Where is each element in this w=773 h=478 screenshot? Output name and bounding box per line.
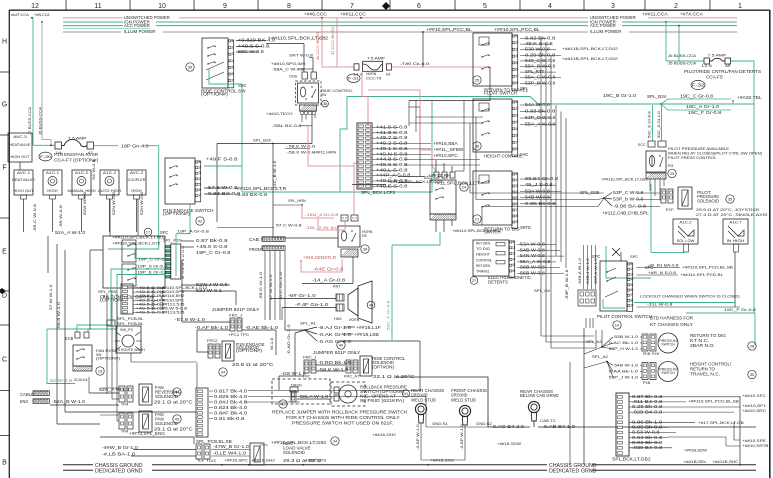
svg-text:8: 8 (287, 3, 291, 10)
svg-text:SPL_RTT: SPL_RTT (525, 69, 545, 74)
svg-text:27.4 Ω AT 20°C, SINGLE AXIS: 27.4 Ω AT 20°C, SINGLE AXIS (696, 212, 768, 217)
svg-text:3: 3 (611, 3, 615, 10)
svg-text:49.K S-0.8: 49.K S-0.8 (525, 41, 554, 46)
svg-text:+##110,SPL,BCK,LT,R: +##110,SPL,BCK,LT,R (234, 186, 286, 191)
svg-text:+49.F S-0.8: +49.F S-0.8 (206, 157, 238, 162)
svg-text:YFM: YFM (121, 430, 128, 434)
svg-text:B: B (2, 460, 7, 467)
svg-text:-9.08 BA-0.8: -9.08 BA-0.8 (613, 204, 647, 209)
svg-text:19P_C Or-0.8: 19P_C Or-0.8 (138, 257, 169, 261)
svg-text:F: F (2, 165, 6, 172)
svg-text:8: 8 (631, 298, 633, 302)
svg-text:1: 1 (631, 262, 633, 266)
svg-text:MANUAL HIGH: MANUAL HIGH (68, 189, 96, 193)
svg-text:45: 45 (369, 303, 374, 308)
svg-text:38: 38 (363, 247, 368, 252)
svg-text:54B W-1.0: 54B W-1.0 (614, 363, 639, 368)
svg-text:+#112,C4B,CHB,SPL: +#112,C4B,CHB,SPL (602, 211, 650, 216)
svg-text:+49.7 S-0.8: +49.7 S-0.8 (376, 135, 408, 140)
svg-text:J7 BUSS-CCA: J7 BUSS-CCA (28, 106, 32, 135)
svg-text:HN2: HN2 (334, 317, 342, 321)
svg-text:12: 12 (31, 3, 39, 10)
svg-text:0.82 Bk-0.8: 0.82 Bk-0.8 (525, 36, 556, 41)
svg-text:7: 7 (516, 140, 518, 144)
svg-text:-#,LB BA-1.0: -#,LB BA-1.0 (102, 452, 136, 457)
svg-text:0.87 Bk-0.8: 0.87 Bk-0.8 (196, 238, 228, 243)
svg-text:SPL_BCK.LCF2: SPL_BCK.LCF2 (361, 190, 396, 195)
svg-text:+49.2 S-0.8: +49.2 S-0.8 (376, 141, 408, 146)
svg-text:SPL_G#: SPL_G# (534, 288, 551, 293)
svg-text:1: 1 (516, 172, 518, 176)
svg-text:-0.AP W-1.0: -0.AP W-1.0 (416, 424, 420, 450)
svg-text:54B W-0.8: 54B W-0.8 (520, 247, 546, 252)
svg-text:22.1 Ω at 20°C: 22.1 Ω at 20°C (373, 374, 416, 379)
svg-text:SOLENOID: SOLENOID (155, 421, 178, 426)
svg-text:IN HIGH: IN HIGH (727, 239, 745, 243)
svg-text:SPL,BCK,LT,GB2: SPL,BCK,LT,GB2 (612, 457, 651, 462)
svg-text:26: 26 (475, 144, 480, 149)
svg-text:SPC: SPC (592, 254, 600, 259)
svg-text:53P_H W-1.0: 53P_H W-1.0 (609, 346, 639, 351)
svg-text:52 W-0.8: 52 W-0.8 (50, 378, 73, 383)
svg-text:+##10,SFC: +##10,SFC (433, 153, 458, 158)
svg-text:+##16,SBA: +##16,SBA (433, 141, 458, 146)
svg-text:SPL_A2: SPL_A2 (586, 339, 603, 344)
svg-text:9: 9 (631, 304, 633, 308)
svg-text:19C_A Gr-1.0: 19C_A Gr-1.0 (686, 104, 720, 109)
svg-text:AVC.1: AVC.1 (17, 170, 31, 175)
svg-text:0.824 Bk-4.0: 0.824 Bk-4.0 (214, 405, 248, 410)
svg-text:FRC_J: FRC_J (229, 313, 242, 318)
svg-text:G: G (2, 102, 7, 109)
svg-text:-57.9 W-1.0: -57.9 W-1.0 (175, 317, 206, 322)
svg-text:HORN: HORN (349, 318, 359, 322)
svg-text:SWITCH: SWITCH (661, 371, 675, 375)
svg-text:52A_A W-1.0: 52A_A W-1.0 (55, 230, 86, 235)
svg-text:PXB: PXB (643, 381, 651, 385)
svg-text:57.C W-0.8: 57.C W-0.8 (276, 224, 301, 228)
svg-text:-19U_4 Gr-0.8: -19U_4 Gr-0.8 (305, 213, 338, 217)
svg-text:-6# Gr-1.0: -6# Gr-1.0 (288, 293, 317, 298)
svg-text:6: 6 (516, 202, 518, 206)
svg-text:34: 34 (333, 439, 338, 444)
svg-text:SWITCH: SWITCH (661, 343, 675, 347)
svg-text:LOCKOUT CHANGED WHEN SWITCH IS: LOCKOUT CHANGED WHEN SWITCH IS CLOSED. (640, 294, 741, 299)
svg-text:-0,LE W4-1.0: -0,LE W4-1.0 (213, 451, 247, 456)
svg-text:+41.8 S-0.8: +41.8 S-0.8 (376, 130, 408, 135)
svg-text:7: 7 (350, 3, 354, 10)
svg-text:0.8#F Bk-4.0: 0.8#F Bk-4.0 (214, 411, 248, 416)
svg-text:RETURN: RETURN (476, 264, 490, 268)
svg-text:COUPLER: COUPLER (128, 178, 146, 182)
svg-text:+##10,SRTB: +##10,SRTB (742, 443, 769, 448)
svg-text:CAB.TC: CAB.TC (540, 418, 556, 423)
svg-text:0.829 Bk-4.0: 0.829 Bk-4.0 (214, 394, 248, 399)
svg-text:-59.G W-1.0: -59.G W-1.0 (259, 272, 263, 300)
svg-text:SRTD: SRTD (520, 225, 531, 230)
svg-text:E: E (2, 249, 7, 256)
svg-text:19: 19 (615, 323, 620, 328)
svg-text:34: 34 (221, 370, 226, 375)
svg-text:+##110,SPL,BCK,LG72: +##110,SPL,BCK,LG72 (112, 242, 160, 246)
svg-text:ENG: ENG (20, 399, 28, 404)
svg-text:4: 4 (199, 177, 201, 181)
svg-text:RE: RE (362, 234, 368, 238)
svg-text:1: 1 (513, 240, 515, 244)
svg-text:+PC1 TPC: +PC1 TPC (228, 332, 249, 337)
svg-text:19C_B Gr-1.0: 19C_B Gr-1.0 (603, 93, 637, 98)
svg-text:+##110,SPL,BCK,LT,N02: +##110,SPL,BCK,LT,N02 (112, 236, 165, 240)
svg-text:ILLUM POWER: ILLUM POWER (124, 29, 156, 34)
svg-text:AVC.2: AVC.2 (130, 170, 144, 175)
svg-text:9: 9 (516, 220, 518, 224)
svg-text:4: 4 (232, 59, 234, 63)
svg-text:53C_F Gr-0.8: 53C_F Gr-0.8 (387, 301, 391, 330)
svg-text:SPL_FAN: SPL_FAN (98, 289, 117, 294)
svg-text:53P_b W-0.8: 53P_b W-0.8 (613, 197, 644, 202)
svg-text:1: 1 (738, 3, 742, 10)
svg-text:40: 40 (339, 343, 344, 348)
svg-text:6: 6 (631, 288, 633, 292)
svg-text:53B W-1.0: 53B W-1.0 (614, 334, 639, 339)
svg-text:SPL_A2: SPL_A2 (592, 354, 609, 359)
svg-text:2: 2 (199, 166, 201, 170)
svg-text:4: 4 (516, 190, 518, 194)
svg-text:20.8 Ω at 20°C: 20.8 Ω at 20°C (232, 362, 275, 367)
svg-text:54A W-0.8: 54A W-0.8 (525, 102, 551, 107)
svg-text:90 PSIG (621KPA): 90 PSIG (621KPA) (360, 398, 405, 403)
svg-text:AVC.3: AVC.3 (13, 134, 27, 139)
svg-text:-SBL BX-0.8: -SBL BX-0.8 (272, 123, 302, 128)
svg-text:F-32: F-32 (692, 83, 705, 89)
svg-text:41: 41 (404, 391, 409, 396)
svg-text:5: 5 (483, 3, 487, 10)
svg-text:53P_C W-0.8: 53P_C W-0.8 (613, 190, 644, 195)
svg-text:SPL_PCB,BL: SPL_PCB,BL (117, 316, 144, 321)
svg-text:J7-CCC BUSS: J7-CCC BUSS (331, 27, 335, 55)
svg-text:WELD STUD: WELD STUD (411, 397, 436, 402)
svg-text:7: 7 (516, 74, 518, 78)
svg-text:+49.1 S-0.8: +49.1 S-0.8 (376, 146, 408, 151)
svg-text:D: D (2, 293, 7, 300)
svg-text:ACC POWER: ACC POWER (124, 23, 150, 28)
svg-text:6: 6 (513, 269, 515, 273)
svg-text:43: 43 (175, 417, 180, 422)
svg-text:DETENTS: DETENTS (488, 280, 508, 285)
svg-text:+##T3,SPL_ENG: +##T3,SPL_ENG (129, 431, 165, 436)
svg-text:W-1.0: W-1.0 (270, 338, 274, 350)
svg-text:+41.5 S-0.8: +41.5 S-0.8 (376, 125, 408, 130)
svg-text:+49.N S-0.8: +49.N S-0.8 (376, 151, 408, 156)
svg-text:5: 5 (516, 61, 518, 65)
svg-text:6: 6 (417, 3, 421, 10)
svg-text:53C_E Gr-0.8: 53C_E Gr-0.8 (648, 111, 652, 138)
svg-text:+##16,L0B: +##16,L0B (354, 332, 379, 337)
svg-text:FRC_A7: FRC_A7 (344, 375, 359, 379)
svg-text:7.5 AMP: 7.5 AMP (68, 136, 87, 141)
svg-text:-0.AF Bk-1.0: -0.AF Bk-1.0 (195, 325, 229, 330)
svg-text:19P_E Or-0.8: 19P_E Or-0.8 (137, 270, 168, 274)
svg-text:2: 2 (674, 3, 678, 10)
svg-text:57.W W-1.0: 57.W W-1.0 (269, 275, 273, 300)
svg-text:53P_B W-0.8: 53P_B W-0.8 (525, 80, 556, 85)
svg-text:52N W-0.6: 52N W-0.6 (112, 192, 116, 215)
svg-text:9: 9 (223, 3, 227, 10)
svg-text:7.5 AMP: 7.5 AMP (708, 53, 727, 58)
svg-text:SPC: SPC (630, 254, 638, 259)
svg-text:A1C.2: A1C.2 (679, 221, 691, 225)
svg-text:BELOW CAB GRND: BELOW CAB GRND (520, 393, 559, 398)
svg-text:-T#0 Ck-6.0: -T#0 Ck-6.0 (400, 61, 430, 66)
svg-text:HEIGHT CONTROL: HEIGHT CONTROL (484, 154, 523, 159)
svg-text:17: 17 (146, 230, 151, 235)
svg-text:+##110,SPL,BCK,LT,G02: +##110,SPL,BCK,LT,G02 (452, 229, 501, 233)
svg-text:.039 B4-0.8: .039 B4-0.8 (632, 445, 663, 450)
svg-text:A1C.1: A1C.1 (46, 170, 60, 175)
svg-text:+#16,SPS: +#16,SPS (305, 458, 327, 463)
svg-text:+##11,CCC: +##11,CCC (340, 12, 366, 17)
svg-text:DEDICATED GRND: DEDICATED GRND (549, 469, 597, 475)
svg-text:DEDICATED GRND: DEDICATED GRND (95, 469, 143, 475)
svg-text:19C_F Gr-0.8: 19C_F Gr-0.8 (688, 110, 722, 115)
svg-text:36: 36 (188, 65, 193, 70)
svg-text:+##16,GH2: +##16,GH2 (372, 432, 397, 437)
svg-text:3: 3 (232, 52, 234, 56)
svg-text:C: C (2, 357, 7, 364)
svg-text:36: 36 (323, 101, 328, 106)
svg-text:+##110,SPL,PCD,BL: +##110,SPL,PCD,BL (680, 273, 723, 277)
svg-text:25: 25 (475, 78, 480, 83)
svg-text:-0.AG Gr-2.0: -0.AG Gr-2.0 (318, 339, 352, 344)
svg-text:+##10,SPL,PCC,BL: +##10,SPL,PCC,BL (426, 27, 473, 32)
svg-text:+##110,SPL,BCK,LT,G02: +##110,SPL,BCK,LT,G02 (601, 178, 648, 182)
svg-text:A1C.7: A1C.7 (729, 221, 741, 225)
svg-text:30: 30 (750, 372, 755, 377)
svg-text:A1C.2: A1C.2 (75, 170, 89, 175)
svg-text:SPL_A1: SPL_A1 (300, 321, 317, 326)
svg-text:3: 3 (199, 171, 201, 175)
svg-text:+49.E S-0.8: +49.E S-0.8 (376, 183, 408, 188)
svg-text:-9.AJ Gr-1.0: -9.AJ Gr-1.0 (318, 325, 352, 330)
svg-text:SFC: SFC (160, 230, 168, 235)
svg-text:55A_A W-0.8: 55A_A W-0.8 (525, 122, 556, 127)
svg-text:FRONT: FRONT (249, 247, 264, 252)
svg-text:CCA-F5: CCA-F5 (706, 75, 723, 80)
svg-text:PKB: PKB (643, 352, 651, 356)
svg-text:8: 8 (516, 214, 518, 218)
svg-text:HORN: HORN (366, 72, 376, 76)
svg-text:+##16,SG2: +##16,SG2 (430, 458, 455, 463)
svg-text:2: 2 (631, 267, 633, 271)
svg-text:PILOT PRESS CONTROL: PILOT PRESS CONTROL (668, 156, 716, 160)
svg-text:HIGH OUT: HIGH OUT (13, 189, 34, 193)
svg-text:+##113,5J5: +##113,5J5 (159, 311, 184, 315)
svg-text:+##11B,SPL,BCK,LT,G02: +##11B,SPL,BCK,LT,G02 (562, 56, 619, 61)
svg-text:+##10,SPL,BCK,LT,G82: +##10,SPL,BCK,LT,G82 (271, 440, 327, 445)
svg-text:L1.5: L1.5 (702, 64, 712, 68)
svg-text:TO DIG: TO DIG (476, 247, 490, 251)
svg-text:-W_B1 BA-0.8: -W_B1 BA-0.8 (648, 264, 679, 268)
svg-text:SPL_HRN: SPL_HRN (288, 199, 306, 203)
svg-text:-0.AP W-1.0: -0.AP W-1.0 (460, 424, 464, 450)
svg-text:19C_C Gr-0.8: 19C_C Gr-0.8 (680, 94, 714, 99)
svg-text:53P_J W-1.0: 53P_J W-1.0 (609, 375, 639, 380)
svg-text:4: 4 (513, 257, 515, 261)
svg-text:uh#T,CCA: uh#T,CCA (11, 13, 30, 17)
svg-text:-53P_B W-0.8: -53P_B W-0.8 (565, 270, 569, 301)
svg-text:SFL: SFL (520, 86, 529, 91)
svg-text:53P_D W-0.8: 53P_D W-0.8 (525, 115, 556, 120)
svg-text:0.AA Bk-1.0: 0.AA Bk-1.0 (609, 369, 639, 374)
svg-text:CABLE: CABLE (20, 392, 34, 397)
svg-text:69.B4 Gr-0.8: 69.B4 Gr-0.8 (525, 176, 559, 181)
svg-text:SRT W-0.8: SRT W-0.8 (289, 53, 314, 58)
svg-text:ACC POWER: ACC POWER (590, 23, 616, 28)
svg-text:-53P,A W-1.0: -53P,A W-1.0 (594, 258, 598, 285)
svg-text:FLOAT SWITCH: FLOAT SWITCH (484, 90, 517, 95)
svg-text:YFM: YFM (121, 403, 128, 407)
svg-text:0.8#J Bk-4.0: 0.8#J Bk-4.0 (214, 400, 248, 405)
svg-text:55A_A W-0.8: 55A_A W-0.8 (520, 259, 551, 264)
svg-text:+49.0 S-0.8: +49.0 S-0.8 (196, 244, 228, 249)
svg-text:1: 1 (199, 160, 201, 164)
svg-text:-14_A Gr-0.8: -14_A Gr-0.8 (312, 278, 346, 283)
svg-text:3: 3 (516, 184, 518, 188)
svg-text:EYF: EYF (666, 208, 674, 212)
svg-text:+##1B,SDW: +##1B,SDW (684, 449, 707, 453)
svg-text:35: 35 (728, 197, 733, 202)
svg-text:-54B,J W-1.0: -54B,J W-1.0 (586, 258, 590, 285)
svg-text:2: 2 (516, 107, 518, 111)
svg-text:52H W-0.6: 52H W-0.6 (140, 192, 144, 215)
svg-text:TLP: TLP (197, 459, 205, 463)
svg-text:SHC: SHC (520, 152, 528, 157)
svg-text:55A_B W-0.8: 55A_B W-0.8 (525, 64, 556, 69)
svg-text:FRC_J: FRC_J (303, 355, 316, 360)
svg-text:SPL_B26: SPL_B26 (253, 139, 271, 143)
svg-text:WHEN RELAY CLOSES(PILOT CTRL S: WHEN RELAY CLOSES(PILOT CTRL SW OPEN) (668, 152, 763, 156)
svg-text:0.81 Bk-0.8: 0.81 Bk-0.8 (214, 416, 245, 421)
svg-text:H: H (2, 39, 7, 46)
svg-text:3: 3 (513, 252, 515, 256)
svg-text:-54B,A W-1.0: -54B,A W-1.0 (578, 258, 582, 285)
svg-text:2BAR N.O.: 2BAR N.O. (690, 343, 715, 348)
svg-text:PILOT/RIDE CNTRL/FAN DETENTS: PILOT/RIDE CNTRL/FAN DETENTS (684, 69, 761, 74)
svg-text:J#-CCC BUSS: J#-CCC BUSS (316, 32, 320, 60)
svg-text:HEATVALVE: HEATVALVE (12, 178, 35, 182)
svg-text:19P_9 Or-0.8: 19P_9 Or-0.8 (137, 265, 168, 269)
svg-text:29: 29 (670, 171, 675, 176)
svg-text:HIGH: HIGH (47, 189, 57, 193)
svg-text:AA: AA (386, 73, 391, 77)
svg-text:+##11B,SHC: +##11B,SHC (712, 459, 739, 464)
svg-text:-58.E W-0.6: -58.E W-0.6 (287, 145, 315, 149)
svg-text:+##18,SDW: +##18,SDW (497, 441, 521, 446)
svg-text:AUTO HIGH: AUTO HIGH (98, 189, 121, 193)
svg-text:CAB.T: CAB.T (249, 237, 264, 242)
svg-text:SW_P3: SW_P3 (120, 328, 133, 332)
svg-text:5: 5 (513, 263, 515, 267)
svg-text:KT CHASSIS ONLY: KT CHASSIS ONLY (650, 322, 693, 327)
svg-text:SCALE#: SCALE# (74, 378, 88, 382)
svg-text:SPL_D25: SPL_D25 (580, 190, 600, 195)
svg-text:0.8S Bk-0.8: 0.8S Bk-0.8 (525, 201, 556, 206)
svg-text:+44P_A S-0.8: +44P_A S-0.8 (376, 173, 411, 178)
svg-text:PRESSURE SWITCH NOT USED ON 82: PRESSURE SWITCH NOT USED ON 821F. (292, 420, 393, 425)
svg-text:7.5 AMP: 7.5 AMP (367, 57, 385, 61)
svg-text:REPLACE JUMPER WITH ROLLBACK P: REPLACE JUMPER WITH ROLLBACK PRESSURE SW… (272, 410, 407, 415)
svg-text:SOL LOW: SOL LOW (677, 239, 695, 243)
svg-text:4: 4 (516, 120, 518, 124)
svg-text:6: 6 (516, 134, 518, 138)
svg-text:4: 4 (631, 278, 633, 282)
svg-text:54N W-0.8: 54N W-0.8 (520, 253, 546, 258)
svg-text:19P_A Gr-0.8: 19P_A Gr-0.8 (177, 229, 210, 234)
svg-text:BTD HARNESS FOR: BTD HARNESS FOR (650, 316, 693, 321)
svg-text:SOLENOID: SOLENOID (155, 394, 178, 399)
svg-text:1: 1 (232, 39, 234, 43)
svg-text:3: 3 (516, 47, 518, 51)
svg-text:FPC2: FPC2 (207, 338, 218, 343)
svg-text:6: 6 (232, 72, 234, 76)
svg-text:53C_A Gr-1.0: 53C_A Gr-1.0 (657, 111, 661, 138)
svg-text:F-30: F-30 (40, 154, 52, 159)
svg-text:+##16,SH2: +##16,SH2 (251, 458, 276, 463)
svg-text:+#R_N S-0.8: +#R_N S-0.8 (648, 271, 676, 275)
svg-text:+##16,SPC: +##16,SPC (224, 458, 248, 463)
svg-text:7: 7 (199, 194, 201, 198)
svg-text:(OPTION#): (OPTION#) (201, 92, 228, 97)
svg-text:52W W-0.6: 52W W-0.6 (83, 192, 87, 215)
svg-text:-0.AE Bk-1.0: -0.AE Bk-1.0 (245, 325, 279, 330)
svg-text:7: 7 (631, 293, 633, 297)
svg-text:6: 6 (516, 68, 518, 72)
svg-text:8: 8 (516, 81, 518, 85)
svg-text:SPL_P1N: SPL_P1N (163, 238, 182, 243)
svg-text:+##10,SPL,PCC,BL: +##10,SPL,PCC,BL (494, 27, 541, 32)
svg-text:CONTROL: CONTROL (476, 258, 492, 262)
svg-text:PILOT PRESSURE AVAILABLE: PILOT PRESSURE AVAILABLE (668, 147, 730, 151)
svg-text:2: 2 (516, 41, 518, 45)
svg-text:TRAVEL: TRAVEL (476, 270, 490, 274)
svg-text:1: 1 (516, 34, 518, 38)
svg-text:(OPTION#): (OPTION#) (163, 211, 190, 216)
svg-text:+49.6 S-0.8: +49.6 S-0.8 (376, 162, 408, 167)
svg-text:ILLUM POWER: ILLUM POWER (590, 29, 622, 34)
svg-text:-55.C W-0.8: -55.C W-0.8 (33, 204, 37, 232)
svg-text:-0.C Gr-1.0: -0.C Gr-1.0 (279, 272, 283, 300)
svg-text:J6 BUSS-CCA: J6 BUSS-CCA (39, 106, 43, 135)
svg-text:SW: SW (321, 92, 326, 97)
svg-text:+##10,SPG,0#9: +##10,SPG,0#9 (271, 61, 306, 66)
svg-text:+##6,CCC: +##6,CCC (304, 12, 327, 17)
svg-text:-0.AD Gr-1.0: -0.AD Gr-1.0 (287, 325, 291, 356)
svg-text:8: 8 (516, 147, 518, 151)
svg-text:P1N ENG/FAN RVSR: P1N ENG/FAN RVSR (54, 152, 98, 157)
svg-text:-47W_B Gr-1.0: -47W_B Gr-1.0 (213, 444, 250, 449)
svg-text:TRAVEL N.C.: TRAVEL N.C. (690, 372, 720, 377)
svg-text:44: 44 (175, 390, 180, 395)
svg-text:J6 BUSS-CCA: J6 BUSS-CCA (668, 54, 697, 58)
svg-text:55A_C W-0.8: 55A_C W-0.8 (525, 75, 556, 80)
svg-text:58C W-0.8: 58C W-0.8 (238, 49, 265, 54)
svg-text:CCC-T6: CCC-T6 (366, 77, 381, 81)
svg-text:ECB: ECB (65, 336, 74, 341)
svg-text:(OPTION#): (OPTION#) (236, 348, 262, 353)
svg-text:ECC: ECC (638, 143, 646, 147)
svg-text:53A W-0.8: 53A W-0.8 (525, 188, 551, 193)
svg-text:+##110,SPL,BCK,LT,G02: +##110,SPL,BCK,LT,G02 (387, 179, 444, 184)
